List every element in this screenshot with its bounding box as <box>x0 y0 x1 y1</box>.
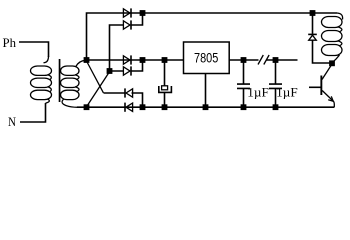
transformer T1 primary turn 1 <box>31 66 52 75</box>
svg-text:7805: 7805 <box>194 49 218 65</box>
junction dot C1 bottom <box>162 104 168 110</box>
capacitor C3 plates <box>269 84 282 88</box>
junction dot node A <box>84 57 90 63</box>
wire D2 cathode to top junction <box>131 13 143 25</box>
wire node A up to top rail and top rail <box>87 13 338 60</box>
capacitor C1 electrolytic top lead <box>164 60 166 86</box>
wire L1 crossover 1-2 <box>338 27 342 32</box>
diode D6 (points left, on bottom rail) <box>125 103 133 112</box>
wire N lead <box>20 103 46 122</box>
wire Ph lead <box>19 42 49 57</box>
capacitor C2 bottom lead <box>243 88 245 107</box>
junction dot D1/D2 cathodes <box>140 10 146 16</box>
transistor Q1 base bar <box>320 76 322 96</box>
junction dot node B <box>84 104 90 110</box>
wire secondary exit to bottom rail <box>62 99 78 107</box>
junction dot C1 top <box>162 57 168 63</box>
wire mid rail left <box>87 59 184 61</box>
diode D1 <box>123 8 131 17</box>
wire D2 anode branch to node C <box>110 25 124 71</box>
junction dot D3/D4 cathodes <box>140 57 146 63</box>
diode D3 <box>123 55 131 64</box>
wire mid rail right of break <box>267 59 298 61</box>
capacitor C3 bottom lead <box>275 88 277 107</box>
transformer T1 secondary turn 2 <box>61 78 80 87</box>
wire D4 cathode to mid junction <box>131 60 143 71</box>
capacitor C3 top lead <box>275 60 277 84</box>
transistor Q1 emitter arrowhead <box>328 96 333 101</box>
capacitor C1 positive plate box <box>162 86 168 90</box>
wire L1 exit to junction <box>332 55 339 63</box>
wire U1 ground pin <box>205 74 207 108</box>
junction dot D5/D6 <box>140 104 146 110</box>
wire mid rail right of 7805 <box>230 59 259 61</box>
transformer T1 primary turn 2 <box>31 78 52 87</box>
junction dot U1 ground <box>203 104 209 110</box>
wire D7 bottom lead to L1 junction <box>313 40 331 63</box>
wire D5 anode to bottom junction <box>132 93 143 107</box>
capacitor C1 bottom lead <box>164 92 166 107</box>
wire X leg node C to node B <box>87 72 110 107</box>
diode D5 (points left) <box>125 88 133 97</box>
inductor L1 entry from top rail <box>337 13 343 20</box>
wire X leg node A to D5 row <box>87 61 104 93</box>
junction dot top right <box>310 10 316 16</box>
junction dot C2 bottom <box>241 104 247 110</box>
wire secondary crossover 1-2 <box>75 75 79 80</box>
svg-text:1µF: 1µF <box>276 85 298 100</box>
wire base lead stub <box>309 86 321 88</box>
diode D7 (vertical, points up) <box>308 34 317 40</box>
wire D5 row <box>104 92 125 94</box>
junction dot L1/D7/collector <box>329 60 335 66</box>
diode D2 <box>123 20 131 29</box>
wire secondary crossover 2-3 <box>75 87 79 92</box>
svg-text:Ph: Ph <box>3 35 17 50</box>
junction dot C3 bottom <box>273 104 279 110</box>
inductor L1 turn 1 <box>322 17 343 28</box>
junction dot C2 top <box>241 57 247 63</box>
regulator U1 7805 box <box>184 42 230 74</box>
transistor Q1 emitter <box>322 91 334 108</box>
transformer T1 secondary turn 1 <box>61 66 80 75</box>
junction dot node C <box>107 68 113 74</box>
junction dot C3 top <box>273 57 279 63</box>
transistor Q1 collector <box>322 65 332 80</box>
diode D4 <box>123 66 131 75</box>
wire break symbol on mid rail <box>258 55 269 65</box>
wire D7 top lead <box>312 13 314 34</box>
wire primary exit to N <box>46 99 50 103</box>
inductor L1 turn 2 <box>322 31 343 42</box>
wire primary crossover 1-2 <box>48 75 52 80</box>
transformer T1 core <box>59 59 61 102</box>
transformer T1 primary turn 3 <box>31 90 52 99</box>
wire L1 crossover 2-3 <box>338 41 342 46</box>
capacitor C2 plates <box>237 84 250 88</box>
wire primary crossover 2-3 <box>48 87 52 92</box>
transformer T1 secondary turn 3 <box>61 90 80 99</box>
wire secondary entry from node A <box>76 60 86 66</box>
svg-text:1µF: 1µF <box>247 85 268 100</box>
inductor L1 turn 3 <box>322 45 343 56</box>
capacitor C1 negative cup plate <box>159 86 172 92</box>
capacitor C2 top lead <box>243 60 245 84</box>
wire bottom rail <box>77 106 334 108</box>
svg-text:N: N <box>8 114 17 129</box>
wire primary entry hook <box>44 56 49 63</box>
